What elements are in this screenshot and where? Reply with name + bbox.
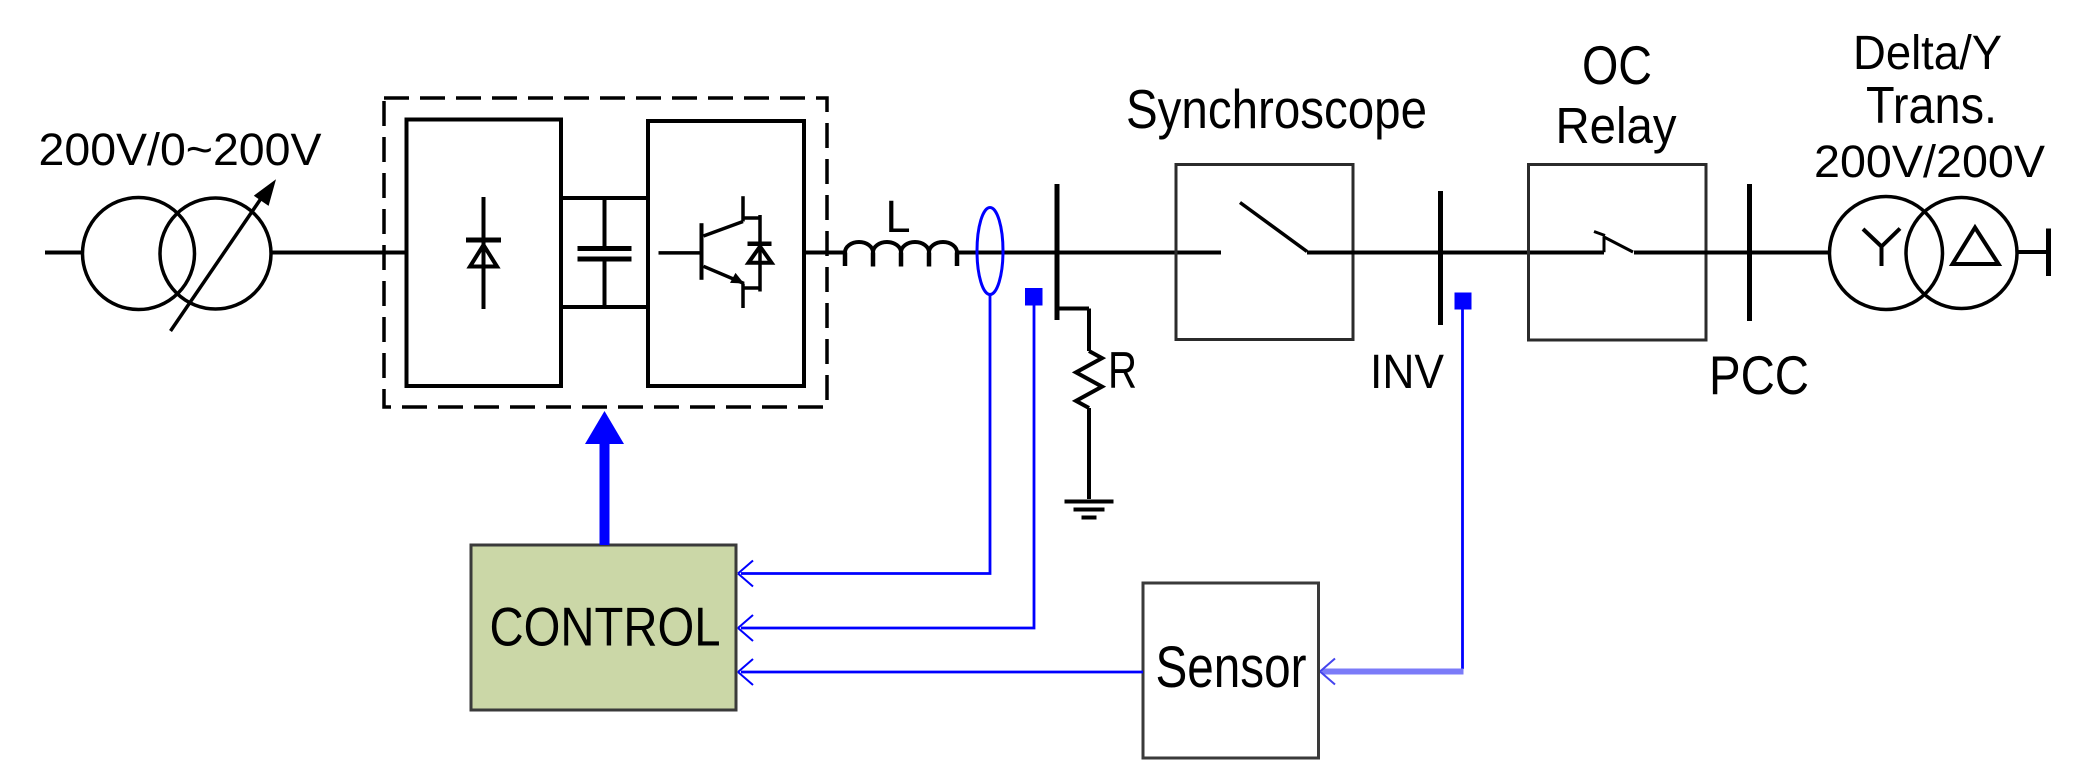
variac adjustment arrow	[171, 179, 277, 331]
OC relay breaker contact	[1594, 232, 1633, 253]
svg-text:Delta/Y: Delta/Y	[1853, 27, 2002, 80]
wire bus to resistor branch	[1057, 307, 1089, 311]
current transducer ellipse	[977, 208, 1003, 295]
wire OC relay to transformer	[1634, 251, 1830, 255]
svg-text:200V/0~200V: 200V/0~200V	[39, 124, 322, 175]
bus bar PCC	[1747, 184, 1752, 321]
wire synchroscope to OC relay	[1307, 251, 1604, 255]
svg-text:R: R	[1108, 342, 1137, 400]
synchroscope switch blade	[1240, 203, 1307, 252]
blue wire sensor to control	[738, 659, 1143, 685]
svg-text:PCC: PCC	[1709, 344, 1809, 406]
svg-text:Relay: Relay	[1556, 97, 1677, 154]
svg-text:L: L	[885, 191, 910, 242]
OC relay box	[1529, 165, 1707, 341]
resistor R	[1076, 309, 1102, 500]
transformer T2 circle Y	[1830, 197, 1943, 310]
wire inductor to synchroscope	[957, 251, 1221, 255]
rectifier box	[407, 120, 562, 387]
wire transformer to terminal	[2017, 250, 2048, 254]
svg-text:OC: OC	[1582, 34, 1652, 96]
transformer T2 circle Delta	[1906, 198, 2017, 309]
blue sense wire from tap 2 to sensor	[1320, 308, 1464, 685]
synchroscope box	[1176, 165, 1353, 340]
voltage tap square node 1	[1025, 288, 1043, 306]
IGBT Q1 with freewheel diode	[659, 196, 772, 308]
svg-text:CONTROL: CONTROL	[490, 596, 721, 658]
voltage tap square node 2	[1455, 293, 1472, 310]
svg-text:Trans.: Trans.	[1866, 77, 1997, 135]
ground	[1065, 502, 1114, 518]
blue sense wire from tap 1 to control	[738, 305, 1034, 641]
dashed converter enclosure	[384, 98, 827, 407]
wire variac to converter	[271, 251, 406, 255]
diode D1	[466, 197, 501, 309]
inductor L	[845, 242, 957, 267]
terminal bar	[2046, 229, 2051, 277]
inverter box	[648, 121, 804, 386]
wire left input	[45, 251, 83, 255]
svg-text:Sensor: Sensor	[1156, 635, 1307, 700]
blue sense wire from CT to control	[738, 295, 990, 587]
wire dc link top	[561, 196, 648, 200]
wire inverter to inductor	[804, 251, 845, 255]
wire dc link bottom	[561, 305, 648, 309]
transformer T1 variac circle left	[83, 198, 195, 310]
svg-text:Synchroscope: Synchroscope	[1126, 78, 1427, 140]
Sensor box	[1143, 583, 1319, 758]
transformer T1 variac circle right	[160, 198, 271, 309]
CONTROL block	[471, 545, 736, 710]
capacitor C1	[578, 198, 632, 307]
thick blue gate-drive arrow	[585, 411, 624, 545]
bus bar INV	[1438, 191, 1443, 325]
Y winding symbol	[1863, 229, 1900, 267]
svg-text:INV: INV	[1370, 346, 1444, 399]
svg-text:200V/200V: 200V/200V	[1814, 136, 2045, 187]
bus bar 1	[1055, 184, 1060, 320]
Delta winding symbol	[1953, 228, 1999, 265]
